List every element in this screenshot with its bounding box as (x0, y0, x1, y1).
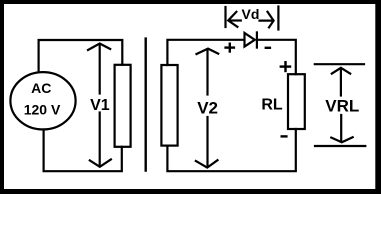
svg-text:V1: V1 (90, 97, 110, 114)
svg-text:120 V: 120 V (24, 101, 61, 117)
svg-text:VRL: VRL (325, 96, 359, 115)
svg-text:AC: AC (31, 80, 51, 96)
svg-text:V2: V2 (197, 98, 218, 117)
svg-text:RL: RL (261, 96, 283, 113)
svg-text:Vd: Vd (242, 6, 260, 22)
